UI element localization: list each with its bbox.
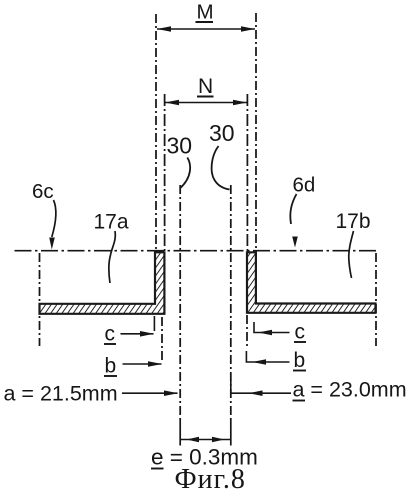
svg-text:30: 30 (167, 133, 193, 159)
svg-text:6c: 6c (32, 180, 54, 203)
label a = 23.0mm (293, 378, 407, 402)
svg-text:b: b (294, 349, 306, 372)
arrow a left (122, 390, 178, 396)
svg-text:a = 21.5mm: a = 21.5mm (4, 382, 118, 406)
svg-text:b: b (105, 355, 117, 378)
label b right (293, 349, 306, 372)
leader for 6d (290, 194, 297, 248)
label N (197, 75, 214, 98)
arrow b left (123, 361, 163, 367)
svg-text:a = 23.0mm: a = 23.0mm (293, 378, 407, 402)
dimension arrow e (180, 437, 231, 442)
inner gap line left (dash-dot) (179, 185, 181, 420)
extension below wall left b (dash-dot) (161, 317, 163, 363)
svg-text:6d: 6d (293, 174, 316, 197)
extension below wall left c (solid) (153, 316, 155, 331)
extension line N left (dash-dot) (164, 94, 166, 252)
extension line M right (dash-dot) (255, 13, 257, 252)
leader for 17b (349, 231, 354, 278)
leader for 17a (109, 231, 116, 283)
svg-text:N: N (198, 75, 213, 98)
svg-text:17a: 17a (94, 211, 129, 234)
bracket 17b (right L-section, hatched) (247, 252, 376, 312)
flange end line right (dash-dot) (375, 253, 377, 346)
leader for right 30 (212, 146, 230, 190)
svg-text:M: M (197, 1, 214, 24)
svg-text:30: 30 (209, 120, 235, 146)
svg-text:c: c (295, 321, 306, 344)
label b left (104, 355, 117, 378)
extension line M left (dash-dot) (155, 14, 157, 252)
label M (196, 1, 214, 24)
extension line N right (dash-dot) (246, 94, 248, 252)
label e = 0.3mm (151, 445, 258, 470)
arrow a right (L-connector from inner line) (231, 380, 291, 396)
flange end line left (dash-dot) (39, 253, 41, 346)
arrow b right (L-connector) (246, 351, 289, 365)
svg-text:c: c (105, 323, 116, 346)
label c right (294, 321, 306, 344)
arrow c left (121, 331, 155, 337)
svg-text:17b: 17b (336, 210, 371, 233)
dimension arrow M (157, 26, 255, 32)
e-dimension extension lines (180, 420, 231, 446)
dimension arrow N (165, 100, 247, 106)
leader for left 30 (180, 158, 190, 189)
svg-text:Фиг.8: Фиг.8 (175, 464, 246, 495)
center line (horizontal dash-dot axis) (15, 250, 378, 252)
label c left (104, 323, 116, 346)
bracket 17a (left L-section, hatched) (40, 252, 165, 313)
extension below wall right (dash-dot) (246, 315, 248, 348)
inner gap line right (dash-dot) (230, 185, 232, 420)
arrow c right (L-connector) (254, 322, 290, 335)
leader for 6c (49, 200, 56, 250)
